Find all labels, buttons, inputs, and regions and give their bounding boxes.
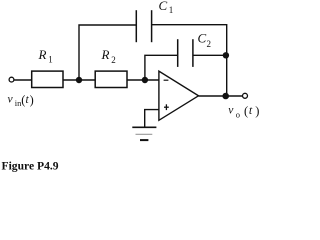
svg-text:v: v [228,105,234,117]
wire [14,79,32,81]
svg-text:): ) [255,104,259,118]
wire [193,54,227,56]
svg-text:o: o [236,110,240,120]
capacitor C1 [136,10,151,42]
wire [152,25,227,96]
node D junction dot [222,93,229,100]
svg-text:R: R [38,47,47,62]
node C junction dot [223,52,229,58]
svg-text:2: 2 [207,39,212,49]
wire [145,55,178,80]
ground [132,127,156,140]
svg-text:t: t [249,103,253,117]
svg-text:1: 1 [48,55,53,65]
svg-text:Figure P4.9: Figure P4.9 [2,160,59,173]
wire [79,25,136,80]
svg-text:(: ( [244,104,248,118]
svg-text:2: 2 [111,55,116,65]
svg-text:C: C [198,31,207,46]
input terminal [9,77,14,82]
svg-text:C: C [159,0,168,13]
node A junction dot [76,77,82,83]
svg-text:R: R [101,47,110,62]
resistor R1 [32,71,63,87]
node B junction dot [142,77,148,83]
output terminal [243,93,248,98]
svg-text:v: v [8,94,14,106]
wire [199,95,243,97]
svg-text:): ) [30,93,34,107]
capacitor C2 [178,39,193,67]
op-amp U1 [159,71,199,120]
wire [63,79,95,81]
resistor R2 [95,71,127,87]
svg-text:1: 1 [169,5,174,15]
wire [145,110,159,128]
pin label minus [164,79,169,81]
wire [127,79,159,81]
pin label plus [164,104,169,110]
